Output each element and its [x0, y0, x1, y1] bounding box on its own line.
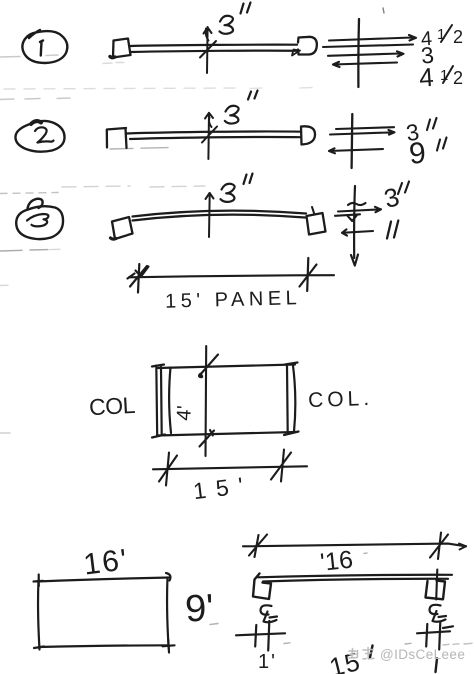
svg-text:9': 9' — [184, 587, 215, 630]
label 4-1/2 (top) — [420, 25, 463, 51]
panel 3 right end block — [307, 207, 326, 235]
COL detail: rectangle — [152, 363, 299, 438]
svg-text:'16: '16 — [319, 546, 354, 577]
panel 3 left end block — [111, 217, 133, 239]
label 4-1/2 (bottom) — [418, 62, 463, 93]
15 ft panel dimension line — [129, 275, 334, 277]
COL detail: centerline through panel — [199, 346, 218, 456]
label 9 inch (section row 2) — [408, 137, 447, 171]
svg-text:15' PANEL: 15' PANEL — [165, 287, 302, 313]
dimension label 3 inch (row 2) — [209, 91, 257, 128]
left dimension star tick — [128, 264, 149, 293]
lower beam dimension line — [243, 533, 466, 560]
svg-text:COL: COL — [88, 392, 136, 420]
circled number 3 — [16, 199, 63, 239]
circled number 1 — [22, 30, 67, 63]
section row 3: vertical line with bottom arrow — [351, 186, 358, 266]
dimension label 3 inch (row 1) — [206, 3, 251, 41]
15 ft dimension under COL detail — [153, 450, 307, 486]
svg-text:4': 4' — [173, 405, 196, 421]
label 15 ft (bottom) — [326, 646, 372, 674]
circled number 2 — [15, 121, 64, 152]
right centerline symbol — [430, 605, 447, 622]
svg-text:1': 1' — [258, 651, 277, 673]
panel 1 left end block — [110, 39, 131, 58]
svg-text:9: 9 — [408, 137, 427, 171]
right dimension star tick — [300, 258, 317, 291]
section row 1: slab lines with arrows — [323, 35, 416, 67]
svg-text:2: 2 — [453, 68, 463, 88]
svg-text:2: 2 — [453, 27, 463, 47]
section row 2: slab lines — [329, 127, 395, 153]
left footing hash — [236, 621, 285, 651]
panel 2 beam (double line) — [127, 131, 302, 133]
panel 1 center tick — [200, 27, 216, 73]
label 1 (right) — [436, 659, 438, 673]
svg-text:4: 4 — [418, 62, 435, 93]
lower beam right bracket — [426, 570, 446, 600]
section row 3: cross lines — [335, 203, 381, 236]
label 3 inch (section row 2) — [404, 118, 436, 146]
lower beam (double line) — [258, 575, 452, 578]
watermark — [349, 648, 374, 660]
left centerline symbol — [261, 605, 278, 622]
svg-text:@IDsCeLeee: @IDsCeLeee — [380, 647, 465, 662]
section row 1: vertical line — [357, 19, 360, 87]
panel 1 right end block — [292, 37, 317, 56]
svg-text:COL.: COL. — [308, 387, 374, 412]
panel 1 beam (double line) — [131, 45, 298, 46]
svg-text:15': 15' — [192, 471, 255, 504]
panel 2 right end bracket — [301, 126, 315, 144]
panel 3 arched beam (double line) — [133, 211, 307, 217]
panel 2 center tick — [202, 113, 217, 159]
label 1 inch (section row 3) — [387, 221, 398, 239]
lower beam left bracket — [253, 574, 271, 600]
panel 3 center tick — [206, 193, 214, 237]
dimension label 3 inch (row 3) — [221, 174, 253, 202]
svg-text:16': 16' — [82, 543, 131, 581]
panel 2 left end bracket — [107, 128, 127, 148]
label 3 inch (section row 3) — [381, 181, 409, 214]
16 x 9 rectangle — [34, 573, 175, 653]
svg-text:3: 3 — [381, 181, 402, 214]
right footing hash — [417, 622, 453, 650]
section row 2: vertical line — [350, 114, 353, 168]
